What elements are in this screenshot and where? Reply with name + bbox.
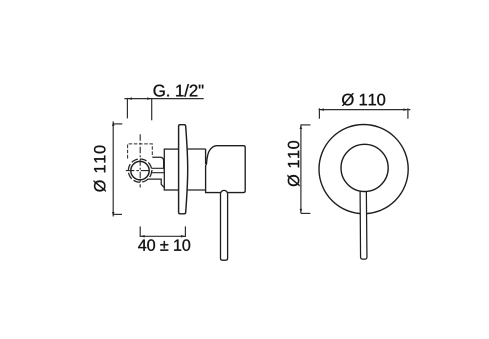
arrowheads G 1/2 — [128, 97, 132, 100]
dimension O 110 left (front view) — [301, 125, 311, 214]
pipe nipple between port and body — [148, 168, 164, 172]
handle lever (front view) — [360, 191, 367, 259]
side port inner circle — [131, 161, 149, 179]
label O 110 (rotated, left view) — [94, 146, 106, 192]
extension line left — [126, 98, 128, 119]
extension line right — [151, 98, 153, 120]
vertical centerline of port — [139, 134, 141, 187]
label O 110 top — [342, 93, 385, 105]
arrowheads O110 left front — [300, 125, 303, 129]
body shoulder steps — [147, 157, 164, 187]
knob front edge stub — [205, 149, 207, 164]
arrowheads 40+-10 — [140, 235, 144, 238]
handle base (inner circle) — [341, 144, 388, 191]
wall plate (escutcheon, side profile) — [179, 125, 188, 214]
arrowheads O110 top — [320, 108, 324, 111]
label O 110 left front (rotated) — [288, 141, 300, 186]
hidden inlet body (dashed rectangle) — [128, 144, 153, 159]
handle lever (side view) — [221, 190, 228, 260]
handle body (knob) — [206, 146, 246, 193]
dimension G. 1/2" : dimension line — [124, 98, 203, 120]
cartridge cylinder behind handle — [187, 149, 206, 190]
dimension 40 +/- 10 : dimension line — [140, 226, 185, 237]
horizontal centerline of port — [126, 170, 153, 172]
label G. 1/2" — [154, 84, 204, 96]
dimension O 110 top (front view) — [319, 108, 411, 118]
mounting block — [164, 149, 179, 190]
side port outer circle (dashed, hidden thread) — [128, 159, 151, 182]
wall plate front (outer circle) — [319, 125, 408, 214]
label 40 +/- 10 — [138, 239, 190, 250]
dimension O 110 (left view) : dimension line — [113, 121, 122, 216]
arrowheads O110 left view — [112, 122, 115, 126]
